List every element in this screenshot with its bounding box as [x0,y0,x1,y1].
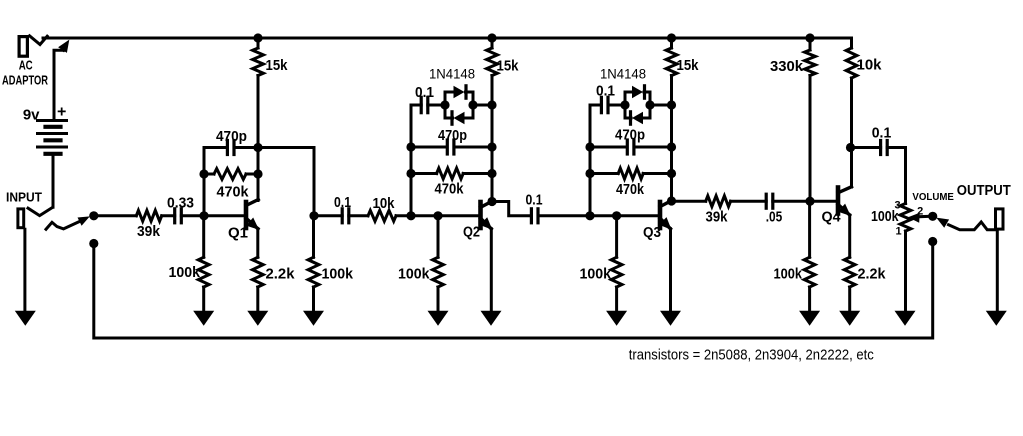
svg-text:15k: 15k [497,59,520,75]
svg-text:100k: 100k [322,267,354,283]
svg-text:1N4148: 1N4148 [429,67,475,82]
svg-text:470p: 470p [438,128,467,144]
svg-text:2.2k: 2.2k [266,267,296,283]
svg-text:0.1: 0.1 [596,83,615,99]
svg-text:39k: 39k [706,209,729,225]
svg-text:Q4: Q4 [822,209,841,225]
svg-text:.05: .05 [766,209,783,225]
svg-text:10k: 10k [857,58,883,74]
svg-text:Q1: Q1 [228,226,248,242]
svg-text:15k: 15k [266,58,289,74]
svg-text:VOLUME: VOLUME [912,191,954,203]
svg-text:470p: 470p [615,127,645,143]
svg-text:15k: 15k [677,58,700,74]
svg-text:470k: 470k [217,185,250,201]
svg-text:100k: 100k [169,265,201,281]
svg-text:AC: AC [19,58,33,72]
svg-text:0.33: 0.33 [167,196,194,212]
svg-text:0.1: 0.1 [526,192,543,208]
svg-text:100k: 100k [774,267,803,283]
svg-text:INPUT: INPUT [6,190,42,205]
svg-text:1N4148: 1N4148 [600,67,646,82]
svg-text:0.1: 0.1 [415,85,434,101]
svg-text:Q2: Q2 [463,225,480,241]
svg-text:3: 3 [894,200,900,212]
svg-text:39k: 39k [137,224,161,240]
svg-text:OUTPUT: OUTPUT [957,183,1011,199]
svg-text:100k: 100k [398,267,430,283]
svg-text:330k: 330k [770,59,804,75]
svg-text:2.2k: 2.2k [858,267,887,283]
svg-text:470k: 470k [616,182,645,198]
svg-text:transistors = 2n5088, 2n3904,: transistors = 2n5088, 2n3904, 2n2222, et… [629,348,874,364]
svg-text:1: 1 [895,226,901,238]
svg-text:+: + [57,103,66,120]
svg-text:10k: 10k [373,196,396,212]
svg-text:470k: 470k [435,182,465,198]
svg-text:470p: 470p [216,129,247,145]
svg-text:Q3: Q3 [643,225,661,241]
svg-text:100k: 100k [580,267,612,283]
svg-text:0.1: 0.1 [334,195,351,211]
svg-text:ADAPTOR: ADAPTOR [2,72,48,87]
svg-text:0.1: 0.1 [872,125,892,141]
